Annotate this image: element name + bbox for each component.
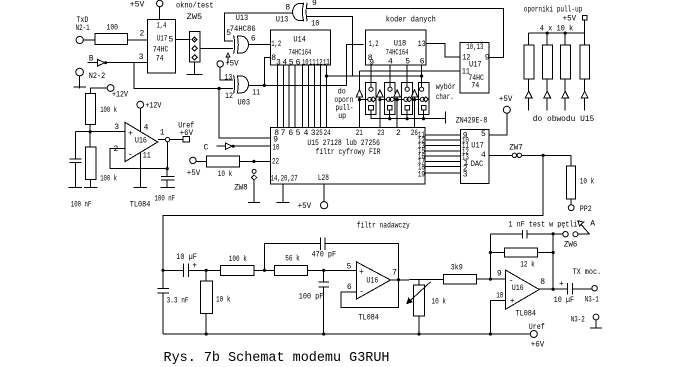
power +5V square terminal	[582, 16, 586, 33]
power +5V terminal DAC	[503, 106, 510, 113]
label filtr nadawczy	[357, 222, 410, 231]
wire branch from pin3 wire down	[134, 63, 219, 89]
label ZW6	[564, 241, 578, 250]
resistor 10k load	[566, 166, 575, 205]
label 100 k	[100, 106, 117, 115]
svg-text:+12V: +12V	[112, 91, 128, 100]
label ZW7	[509, 144, 523, 153]
label ZW8	[234, 183, 248, 192]
label 1 nF test w petli	[509, 220, 578, 229]
svg-text:C: C	[204, 143, 209, 152]
wire 100k to 56k	[254, 269, 275, 272]
svg-text:2: 2	[140, 29, 145, 38]
svg-text:11: 11	[143, 151, 151, 160]
wire U18 pin5 to jumper3	[406, 65, 408, 87]
resistor pull-up 1	[524, 33, 534, 110]
svg-text:6: 6	[347, 283, 352, 292]
svg-text:11: 11	[252, 88, 260, 97]
resistor 56k series	[275, 265, 308, 275]
ground below 100nF right	[160, 187, 175, 189]
resistor 10k pullup U15.22	[206, 156, 239, 167]
svg-text:1: 1	[160, 129, 165, 138]
capacitor 3.3nF	[157, 289, 169, 335]
svg-text:+: +	[359, 268, 364, 277]
svg-text:100 nF: 100 nF	[71, 201, 92, 210]
svg-text:+5V: +5V	[298, 202, 312, 211]
wire U13a out pin6 to U14 pins1,2	[249, 43, 271, 45]
svg-text:U03: U03	[238, 99, 251, 108]
svg-text:10: 10	[311, 19, 319, 28]
jumper block 3	[402, 83, 413, 115]
svg-text:U13: U13	[276, 15, 289, 24]
svg-text:19: 19	[418, 171, 425, 180]
gate U03 XOR 74HC86 (pins 13,12,11)	[234, 75, 249, 93]
svg-text:-: -	[359, 288, 364, 297]
arrow pull-up 2 with stem to U15 pin23	[377, 90, 387, 128]
svg-text:+5V: +5V	[225, 60, 239, 69]
wire opamp -input and feedback	[110, 149, 167, 169]
arrow pull-up 3 with stem to U15 pin2	[394, 90, 404, 128]
arrow pull-up 1 with stem to U15 pin21	[356, 71, 368, 127]
label 100 pF	[299, 292, 324, 301]
label U17b name/pins	[462, 43, 490, 91]
label Uref +6V	[178, 121, 194, 137]
svg-text:N3-2: N3-2	[571, 316, 585, 325]
power +5V terminal above U17a	[157, 0, 163, 19]
svg-text:N3-1: N3-1	[585, 295, 599, 304]
label +5V	[298, 202, 312, 211]
wire H1 to U17b pin11	[360, 70, 461, 72]
wire long y88.5 into U03 pin12	[219, 88, 233, 90]
resistor 100k series	[220, 265, 254, 275]
svg-text:6: 6	[296, 58, 301, 67]
resistor pull-up 2	[542, 33, 552, 110]
wire U15 pins14,20,27 to ground	[277, 184, 290, 202]
svg-text:74: 74	[471, 81, 479, 90]
svg-text:10 k: 10 k	[432, 298, 447, 307]
wire DAC pin5 to +5V	[489, 113, 507, 135]
power +12V terminal opamp	[137, 101, 144, 131]
label ZW5	[187, 13, 203, 22]
svg-text:74HC164: 74HC164	[386, 48, 409, 57]
svg-text:10 k: 10 k	[216, 296, 231, 305]
svg-text:U17: U17	[469, 60, 482, 69]
op-amp U16b	[356, 262, 390, 299]
wire U16a output	[158, 139, 166, 141]
wire junction down to U15 pin 9	[219, 89, 270, 139]
label ZN429E-8	[456, 117, 488, 126]
label 3.3 nF	[167, 296, 189, 305]
jumper ZW6	[555, 232, 578, 237]
label 100 nF	[155, 195, 176, 204]
resistor 100	[95, 34, 127, 45]
caption Rys. 7b Schemat modemu G3RUH	[164, 351, 390, 366]
svg-text:TL084: TL084	[516, 309, 537, 318]
wire U15 pin28 to +5V	[323, 184, 325, 202]
svg-text:U16: U16	[135, 136, 147, 145]
node N2-2 terminal	[76, 68, 84, 76]
label do oporn pull-up	[334, 88, 353, 122]
label 10 k	[580, 177, 595, 186]
svg-text:74HC: 74HC	[153, 45, 169, 54]
svg-text:4 x 10 k: 4 x 10 k	[540, 25, 574, 34]
power +12V terminal left	[91, 85, 114, 94]
svg-text:4: 4	[304, 129, 309, 138]
label U15 left pin numbers	[272, 136, 280, 167]
power +5V terminal pin28	[321, 202, 328, 209]
capacitor 10uF input	[183, 264, 188, 278]
svg-text:14,20,27: 14,20,27	[271, 174, 298, 183]
svg-text:5: 5	[405, 58, 410, 67]
label 10 k	[218, 170, 233, 179]
svg-text:+12V: +12V	[145, 102, 161, 111]
svg-text:5: 5	[296, 129, 301, 138]
svg-text:+6V: +6V	[180, 129, 194, 138]
label +5V	[225, 60, 239, 69]
svg-text:74HC164: 74HC164	[289, 48, 312, 57]
wire DAC output down into filter	[163, 155, 543, 288]
svg-text:8: 8	[285, 4, 290, 13]
resistor pull-up 4	[580, 33, 590, 110]
capacitor 470pF feedback	[265, 238, 399, 280]
label N3-1	[585, 295, 599, 304]
wire H2 U18 tap row	[347, 75, 424, 78]
resistor 3k9	[444, 274, 477, 284]
svg-text:+: +	[510, 297, 515, 306]
label +12V	[145, 102, 161, 111]
svg-text:PP2: PP2	[580, 205, 592, 214]
svg-text:U14: U14	[293, 35, 306, 44]
label 100 k	[100, 175, 117, 184]
svg-text:-: -	[128, 150, 133, 159]
wire B buffer to U17a pin 3	[107, 62, 148, 64]
label TL084	[130, 201, 151, 210]
svg-text:10 µF: 10 µF	[554, 296, 575, 305]
wire U16c output	[539, 288, 568, 290]
svg-text:1,4: 1,4	[157, 21, 167, 30]
wire node to opamp +input	[75, 131, 125, 133]
svg-text:3: 3	[139, 53, 144, 62]
wire 56k to opamp	[308, 269, 357, 272]
svg-text:13: 13	[418, 40, 426, 49]
wire U13b out to U13a pin5	[225, 13, 293, 41]
svg-text:10,13: 10,13	[466, 43, 483, 52]
op-amp U16a	[125, 122, 158, 161]
wire DAC pin4 output to ZW7	[489, 154, 512, 156]
svg-text:Rys. 7b Schemat modemu G3RUH: Rys. 7b Schemat modemu G3RUH	[164, 351, 390, 366]
label N3-2	[571, 316, 585, 325]
svg-text:100: 100	[107, 23, 119, 32]
svg-text:DAC: DAC	[471, 160, 484, 169]
svg-text:4: 4	[481, 151, 486, 160]
svg-text:U16: U16	[512, 284, 524, 293]
svg-text:L28: L28	[318, 174, 329, 183]
jumper block 2	[384, 83, 395, 115]
svg-text:470 pF: 470 pF	[312, 251, 337, 260]
svg-text:TL084: TL084	[358, 314, 379, 323]
wire U18 pin6 to jumper4	[421, 65, 423, 87]
svg-text:5: 5	[168, 35, 173, 44]
wire pull-up bus	[529, 31, 585, 34]
capacitor 100nF right	[161, 169, 175, 188]
svg-text:5: 5	[347, 262, 352, 271]
label U03 name/pins	[224, 74, 260, 108]
wire U16b feedback loop	[341, 280, 399, 308]
EPROM U15 27128	[270, 127, 425, 184]
wire ZW7 to junction	[522, 154, 571, 157]
svg-text:7: 7	[281, 129, 286, 138]
svg-text:A: A	[590, 220, 595, 229]
capacitor 1nF feedback	[490, 230, 553, 239]
svg-text:U16: U16	[366, 277, 378, 286]
label U16a pins	[114, 123, 165, 161]
wire TxD to resistor	[83, 39, 95, 41]
flip-flop U17a 74HC74	[148, 20, 176, 73]
svg-text:6: 6	[420, 57, 425, 66]
power +5V terminal for U03 pin13	[217, 61, 223, 67]
label 470 pF	[312, 251, 337, 260]
wire resistor to U17a pin 2	[128, 39, 148, 41]
wire U15 data bus to DAC (8 lines)	[425, 135, 461, 173]
svg-text:+: +	[128, 130, 133, 139]
svg-text:25: 25	[316, 129, 323, 138]
label A	[590, 220, 595, 229]
svg-text:3k9: 3k9	[451, 264, 463, 273]
svg-text:+5V: +5V	[563, 14, 577, 23]
label 4 x 10 k	[540, 25, 574, 34]
svg-text:2: 2	[114, 145, 119, 154]
label 3k9	[451, 264, 463, 273]
label 100	[107, 23, 119, 32]
register U18 74HC164	[366, 30, 427, 65]
label U15 right pin numbers	[418, 131, 425, 179]
ground below ZW5	[187, 62, 203, 75]
svg-text:N2-2: N2-2	[89, 72, 106, 81]
resistor 12k feedback	[490, 248, 553, 257]
capacitor 10uF output	[568, 283, 592, 294]
svg-text:+5V: +5V	[499, 95, 513, 104]
svg-text:10 k: 10 k	[580, 177, 595, 186]
wire junction to 10k load	[570, 155, 572, 166]
wire U03 out to H3 and U14 pin8	[249, 57, 347, 87]
wire node to 10uF	[163, 269, 183, 271]
svg-text:100 k: 100 k	[100, 106, 117, 115]
svg-text:24: 24	[324, 129, 331, 138]
register U14 74HC164	[271, 30, 331, 65]
wire U16b output	[391, 278, 444, 281]
label Uref +6V	[529, 323, 545, 349]
svg-text:10: 10	[302, 58, 309, 67]
label U13a name	[226, 14, 256, 38]
svg-text:12 k: 12 k	[520, 260, 535, 269]
wire U16c +input to rail	[489, 300, 506, 335]
wire U14 output pins down to U15	[277, 65, 326, 127]
label +5V	[563, 14, 577, 23]
arrow pull-up 4 with stem to U15 pin26	[411, 90, 420, 128]
wire +5V to 10k	[196, 160, 206, 162]
label + polarity	[559, 280, 564, 289]
svg-text:ZN429E-8: ZN429E-8	[456, 117, 488, 126]
svg-text:U18: U18	[394, 40, 407, 49]
label U16c pins	[496, 269, 545, 305]
svg-text:+5V: +5V	[130, 1, 145, 10]
label 10 k	[432, 298, 447, 307]
svg-text:up: up	[338, 112, 346, 121]
svg-text:filtr cyfrowy FIR: filtr cyfrowy FIR	[316, 148, 381, 157]
svg-text:100 nF: 100 nF	[155, 195, 176, 204]
wire jumper squares to common bus	[371, 110, 445, 124]
svg-text:22: 22	[272, 158, 279, 167]
label + polarity	[192, 261, 197, 270]
svg-text:TX moc.: TX moc.	[573, 268, 602, 277]
terminal N3-2 with ground	[590, 314, 602, 328]
label U13b name/pins	[276, 0, 320, 28]
svg-text:+6V: +6V	[531, 340, 545, 349]
svg-text:U15 27128 lub 27256: U15 27128 lub 27256	[307, 139, 380, 148]
label wybor char	[436, 83, 456, 102]
svg-text:8: 8	[540, 278, 545, 287]
svg-text:74: 74	[156, 54, 164, 63]
junction U14 pin13 tap	[325, 75, 328, 78]
svg-text:okno/test: okno/test	[176, 1, 214, 10]
jumper block 4	[418, 83, 429, 115]
svg-text:23: 23	[377, 129, 384, 138]
svg-text:13: 13	[224, 74, 232, 83]
label 12 k	[520, 260, 535, 269]
svg-text:1,2: 1,2	[369, 40, 379, 49]
label N2-2	[89, 72, 106, 81]
switch blade to A	[578, 221, 590, 234]
ground below N2-2	[74, 76, 86, 89]
label U17a pins/name	[139, 21, 174, 63]
svg-text:3.3 nF: 3.3 nF	[167, 296, 189, 305]
label TL084	[358, 314, 379, 323]
buffer arrow B	[88, 60, 108, 67]
flip-flop U17b 74HC74	[460, 42, 489, 93]
label +5V	[187, 169, 201, 178]
svg-text:21: 21	[356, 129, 363, 138]
label TL084	[516, 309, 537, 318]
op-amp U16c	[505, 270, 539, 310]
svg-text:N2-1: N2-1	[76, 24, 90, 33]
label 100 nF	[71, 201, 92, 210]
label +12V	[112, 91, 128, 100]
ground below 100k lower	[84, 187, 98, 189]
label U18 name/pins	[368, 40, 426, 68]
svg-text:100 k: 100 k	[229, 255, 247, 264]
wire U16c feedback left leg	[489, 234, 492, 279]
label U15 texts	[271, 139, 381, 183]
svg-text:ZW8: ZW8	[234, 183, 248, 192]
junction filter input node	[161, 269, 164, 272]
wire output to Uref square	[170, 139, 183, 141]
label oporniki pull-up	[524, 5, 583, 14]
wire U17a pin5 to ZW5	[176, 38, 191, 40]
label U14 name/pins	[271, 35, 330, 67]
svg-text:5: 5	[226, 29, 231, 38]
wire U16a pin11 to ground	[134, 153, 148, 188]
label U16b pins	[347, 262, 398, 296]
svg-text:12: 12	[225, 92, 233, 101]
arrow up to +5V	[226, 53, 230, 63]
svg-text:B: B	[89, 54, 94, 63]
svg-text:5: 5	[481, 130, 486, 139]
svg-text:10: 10	[273, 144, 280, 153]
resistor 100k upper	[85, 93, 95, 131]
ground below 100nF left	[69, 187, 83, 189]
svg-text:12: 12	[316, 58, 323, 67]
svg-text:+: +	[559, 280, 564, 289]
label 100 k	[229, 255, 247, 264]
svg-text:9: 9	[497, 269, 502, 278]
svg-text:6: 6	[288, 129, 293, 138]
svg-text:3: 3	[114, 123, 119, 132]
label 10 uF	[176, 253, 197, 262]
svg-text:7: 7	[392, 269, 397, 278]
svg-text:2: 2	[396, 129, 401, 138]
junction circle on output	[165, 137, 169, 141]
junction divider node	[89, 130, 92, 133]
svg-text:U17: U17	[471, 142, 484, 151]
jumper block 1	[366, 83, 377, 115]
svg-text:TL084: TL084	[130, 201, 151, 210]
svg-text:U13: U13	[236, 14, 249, 23]
wire U16c feedback right leg	[552, 232, 555, 291]
svg-text:4: 4	[144, 124, 149, 133]
svg-text:100 k: 100 k	[100, 175, 117, 184]
svg-text:56 k: 56 k	[285, 254, 300, 263]
svg-text:do obwodu U15: do obwodu U15	[533, 115, 595, 124]
label B	[89, 54, 94, 63]
svg-text:9: 9	[312, 0, 317, 8]
terminal PP2	[568, 205, 574, 211]
wire U18 pin9 to jumper1	[370, 65, 372, 87]
wire 10uF to 100k	[188, 269, 220, 272]
resistor 100k lower	[85, 132, 96, 188]
svg-text:ZW6: ZW6	[564, 241, 578, 250]
svg-text:10 k: 10 k	[218, 170, 233, 179]
label TxD N2-1	[76, 16, 90, 33]
svg-text:9: 9	[369, 58, 374, 67]
label U17c pins/name	[462, 130, 486, 179]
label U15 top pin numbers	[274, 129, 418, 138]
svg-text:+: +	[192, 261, 197, 270]
wire ZW5 middle to XOR U13a pin4	[200, 47, 233, 49]
svg-text:6: 6	[251, 34, 256, 43]
wire U18 pin4 to jumper2	[389, 65, 391, 87]
resistor 10k shunt	[200, 270, 212, 335]
svg-text:Uref: Uref	[529, 323, 545, 332]
wire U18 pin13 to U17b pin12	[426, 43, 460, 57]
svg-text:100 pF: 100 pF	[299, 292, 324, 301]
svg-text:ZW5: ZW5	[187, 13, 203, 22]
label C	[204, 143, 209, 152]
label PP2	[580, 205, 592, 214]
DAC U17c ZN429	[461, 130, 489, 184]
svg-text:+5V: +5V	[187, 169, 201, 178]
label do obwodu U15	[533, 115, 595, 124]
wire output down to cap node	[166, 142, 169, 170]
label +5V	[130, 1, 145, 10]
gate U13b XOR mirrored (pins 8,9,10)	[293, 3, 308, 21]
resistor pull-up 3	[560, 33, 570, 110]
jumper ZW7	[512, 153, 521, 157]
power +5V terminal at ZW8 resistor	[190, 157, 196, 163]
buffer arrow C	[217, 143, 235, 150]
svg-text:filtr nadawczy: filtr nadawczy	[357, 222, 410, 231]
svg-text:9: 9	[485, 54, 490, 63]
svg-text:char.: char.	[436, 93, 454, 102]
